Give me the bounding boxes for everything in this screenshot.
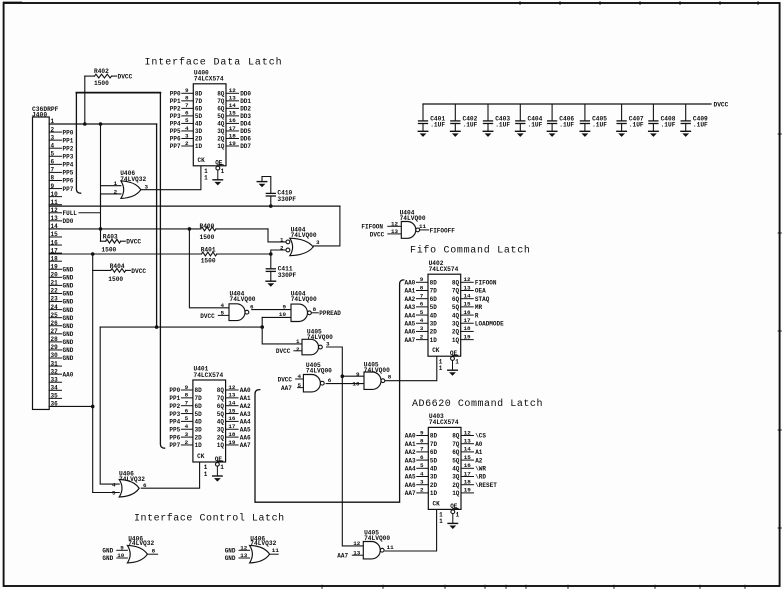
svg-text:2: 2 xyxy=(51,126,55,133)
wire pin36 to U406b pin5 xyxy=(49,405,92,407)
svg-text:1Q: 1Q xyxy=(452,490,460,497)
capacitor C410 330PF with ground hook xyxy=(262,177,271,194)
svg-text:3D: 3D xyxy=(195,128,203,135)
svg-text:8D: 8D xyxy=(430,433,438,440)
svg-text:3: 3 xyxy=(51,134,55,141)
svg-text:DD1: DD1 xyxy=(240,98,251,105)
svg-text:7Q: 7Q xyxy=(452,441,460,448)
wire R404 lead xyxy=(93,269,111,271)
svg-text:STAQ: STAQ xyxy=(475,296,490,303)
wire U405c out8 to U402 CK xyxy=(385,356,437,380)
svg-text:GND: GND xyxy=(225,555,236,562)
svg-text:3: 3 xyxy=(420,479,424,486)
svg-text:AA4: AA4 xyxy=(404,312,415,319)
wire AA bus U401 outputs to latches xyxy=(255,280,404,502)
svg-text:.1UF: .1UF xyxy=(661,122,676,129)
svg-text:\CS: \CS xyxy=(475,433,486,440)
svg-text:1: 1 xyxy=(220,464,224,471)
svg-text:GND: GND xyxy=(63,315,74,322)
svg-text:AA5: AA5 xyxy=(405,474,416,481)
svg-text:GND: GND xyxy=(63,299,74,306)
svg-text:4D: 4D xyxy=(430,466,438,473)
svg-text:AA7: AA7 xyxy=(337,552,348,559)
svg-text:6Q: 6Q xyxy=(217,403,225,410)
svg-text:R: R xyxy=(475,312,479,319)
svg-text:AA2: AA2 xyxy=(405,449,416,456)
svg-text:PP1: PP1 xyxy=(170,98,181,105)
svg-text:15: 15 xyxy=(229,110,237,117)
svg-text:PP3: PP3 xyxy=(170,113,181,120)
svg-text:5: 5 xyxy=(297,382,301,389)
svg-text:AA3: AA3 xyxy=(240,411,251,418)
svg-text:18: 18 xyxy=(51,255,59,262)
svg-text:4: 4 xyxy=(220,302,224,309)
wire C410 tap xyxy=(270,196,272,206)
svg-text:.1UF: .1UF xyxy=(629,122,644,129)
svg-text:3D: 3D xyxy=(430,320,438,327)
svg-text:7D: 7D xyxy=(430,288,438,295)
svg-text:19: 19 xyxy=(464,487,472,494)
wire U406a pin1 tap xyxy=(101,185,121,187)
svg-text:34: 34 xyxy=(51,385,59,392)
wire R402 pullup vertical xyxy=(84,76,86,124)
or-gate U406d 74LVQ32 pins 12 13 11 GND inputs xyxy=(225,535,280,563)
svg-text:13: 13 xyxy=(229,95,237,102)
ground under U403 OE pin xyxy=(448,523,458,529)
svg-text:PP5: PP5 xyxy=(170,128,181,135)
svg-text:3: 3 xyxy=(185,132,189,139)
wire U404c out to U404d pin9 xyxy=(252,309,291,311)
svg-text:5: 5 xyxy=(51,150,55,157)
svg-text:17: 17 xyxy=(464,470,472,477)
svg-text:9: 9 xyxy=(282,303,286,310)
svg-text:2: 2 xyxy=(185,140,189,147)
svg-text:9: 9 xyxy=(356,371,360,378)
svg-text:DVCC: DVCC xyxy=(714,102,729,109)
svg-text:5: 5 xyxy=(185,415,189,422)
svg-text:20: 20 xyxy=(51,272,59,279)
svg-text:1D: 1D xyxy=(430,490,438,497)
IC U403 74LCX574 xyxy=(405,413,497,525)
svg-text:6D: 6D xyxy=(195,403,203,410)
svg-text:AA4: AA4 xyxy=(240,419,251,426)
capacitor C409 .1UF xyxy=(681,104,708,131)
svg-text:5Q: 5Q xyxy=(217,411,225,418)
svg-text:1500: 1500 xyxy=(94,80,109,87)
svg-text:AA4: AA4 xyxy=(405,466,416,473)
svg-text:8: 8 xyxy=(185,392,189,399)
svg-text:19: 19 xyxy=(51,263,59,270)
svg-text:CK: CK xyxy=(432,347,440,354)
svg-text:5D: 5D xyxy=(430,304,438,311)
svg-text:1500: 1500 xyxy=(200,234,215,241)
svg-text:.1UF: .1UF xyxy=(693,122,708,129)
svg-text:8: 8 xyxy=(420,284,424,291)
nand U405a 74LVQ00 pins 1 2 3 xyxy=(276,329,333,356)
svg-text:5: 5 xyxy=(420,462,424,469)
svg-text:5D: 5D xyxy=(195,113,203,120)
svg-text:DD3: DD3 xyxy=(240,113,251,120)
svg-text:DD2: DD2 xyxy=(240,106,251,113)
svg-text:7D: 7D xyxy=(430,441,438,448)
wire U405d out11 to U403 CK xyxy=(385,510,436,552)
wire PP bus horizontal xyxy=(76,92,160,94)
svg-text:2: 2 xyxy=(185,439,189,446)
svg-text:8: 8 xyxy=(420,438,424,445)
svg-text:17: 17 xyxy=(51,247,59,254)
svg-text:14: 14 xyxy=(229,102,237,109)
wire pin1 vertical to n1 junction xyxy=(156,124,158,327)
svg-text:DD6: DD6 xyxy=(240,136,251,143)
svg-text:6: 6 xyxy=(185,407,189,414)
svg-text:GND: GND xyxy=(63,323,74,330)
svg-text:\RD: \RD xyxy=(475,474,486,481)
svg-text:330PF: 330PF xyxy=(278,272,297,279)
nand U404a 74LVQ00 negative-OR pins 1 2 3 xyxy=(280,226,320,255)
svg-text:1: 1 xyxy=(439,365,443,372)
svg-text:3: 3 xyxy=(145,183,149,190)
svg-text:AA3: AA3 xyxy=(404,304,415,311)
wire pin14 line through R400 to U404a pin1 xyxy=(49,228,201,230)
svg-text:6: 6 xyxy=(51,159,55,166)
wire n1 tap to U404c pin4 xyxy=(189,229,229,308)
svg-text:8D: 8D xyxy=(430,280,438,287)
svg-text:1500: 1500 xyxy=(108,276,123,283)
svg-text:AA6: AA6 xyxy=(405,482,416,489)
svg-text:2D: 2D xyxy=(195,136,203,143)
capacitor C401 .1UF xyxy=(419,104,446,131)
svg-text:8: 8 xyxy=(51,175,55,182)
svg-text:FULL: FULL xyxy=(63,210,78,217)
svg-text:8Q: 8Q xyxy=(217,387,225,394)
svg-text:2D: 2D xyxy=(430,482,438,489)
capacitor C407 .1UF xyxy=(617,104,644,131)
svg-text:AA0: AA0 xyxy=(405,433,416,440)
svg-text:4Q: 4Q xyxy=(217,419,225,426)
svg-text:12: 12 xyxy=(353,540,361,547)
svg-text:1Q: 1Q xyxy=(452,337,460,344)
svg-text:74LCX574: 74LCX574 xyxy=(194,76,224,83)
svg-text:6D: 6D xyxy=(430,296,438,303)
svg-text:DD4: DD4 xyxy=(240,121,251,128)
capacitor C403 .1UF xyxy=(484,104,511,131)
svg-text:PP5: PP5 xyxy=(169,426,180,433)
svg-text:4: 4 xyxy=(297,373,301,380)
svg-text:17: 17 xyxy=(228,423,236,430)
svg-text:PP2: PP2 xyxy=(63,145,74,152)
ground for C411 xyxy=(266,281,276,287)
svg-text:2Q: 2Q xyxy=(217,434,225,441)
svg-text:GND: GND xyxy=(225,548,236,555)
svg-text:11: 11 xyxy=(387,544,395,551)
svg-text:MR: MR xyxy=(475,304,483,311)
wire pin11 net long horizontal xyxy=(49,205,340,207)
svg-text:5: 5 xyxy=(220,310,224,317)
svg-text:7: 7 xyxy=(420,446,424,453)
svg-text:GND: GND xyxy=(63,347,74,354)
resistor R404 1500 xyxy=(108,263,146,283)
ground for C403 xyxy=(483,131,493,137)
svg-text:PP2: PP2 xyxy=(169,403,180,410)
svg-text:16: 16 xyxy=(463,309,471,316)
svg-text:AA5: AA5 xyxy=(240,426,251,433)
svg-text:PP3: PP3 xyxy=(63,153,74,160)
svg-text:3D: 3D xyxy=(430,474,438,481)
svg-text:CK: CK xyxy=(433,500,441,507)
svg-text:OE: OE xyxy=(215,456,223,463)
svg-text:6: 6 xyxy=(250,304,254,311)
resistor R401 1500 xyxy=(201,247,217,265)
svg-text:12: 12 xyxy=(463,276,471,283)
svg-text:11: 11 xyxy=(272,547,280,554)
svg-text:4: 4 xyxy=(185,125,189,132)
wire U401 CK net from U406b xyxy=(141,462,199,488)
svg-text:LOADMODE: LOADMODE xyxy=(475,320,504,327)
svg-text:AA7: AA7 xyxy=(404,337,415,344)
svg-text:AA7: AA7 xyxy=(281,385,292,392)
svg-text:3Q: 3Q xyxy=(452,474,460,481)
svg-text:16: 16 xyxy=(464,462,472,469)
svg-text:.1UF: .1UF xyxy=(528,122,543,129)
svg-text:8Q: 8Q xyxy=(217,91,225,98)
svg-text:13: 13 xyxy=(228,392,236,399)
svg-text:14: 14 xyxy=(464,446,472,453)
svg-text:16: 16 xyxy=(228,415,236,422)
svg-text:9: 9 xyxy=(420,276,424,283)
svg-text:PP0: PP0 xyxy=(170,91,181,98)
svg-text:AA3: AA3 xyxy=(405,457,416,464)
svg-text:.1UF: .1UF xyxy=(592,122,607,129)
ground for C409 xyxy=(681,131,691,137)
svg-text:OE: OE xyxy=(450,503,458,510)
svg-text:1: 1 xyxy=(221,168,225,175)
svg-text:AA0: AA0 xyxy=(404,280,415,287)
svg-text:OE: OE xyxy=(215,160,223,167)
connector J400 C36DRPF xyxy=(32,106,77,409)
svg-text:\WR: \WR xyxy=(475,466,486,473)
wire U406a pin2 drop from pin11 net xyxy=(101,194,121,206)
svg-text:CK: CK xyxy=(197,453,205,460)
svg-text:6D: 6D xyxy=(195,106,203,113)
svg-text:PPREAD: PPREAD xyxy=(319,310,341,317)
svg-text:8Q: 8Q xyxy=(452,433,460,440)
wire n1 horizontal y=327 xyxy=(100,326,262,328)
svg-text:9: 9 xyxy=(51,183,55,190)
svg-text:1: 1 xyxy=(296,338,300,345)
svg-text:4D: 4D xyxy=(195,419,203,426)
wire U405a out chain to U405c pin9 and U405d pin12 xyxy=(327,347,364,546)
wire PP bus left vertical with hook xyxy=(76,93,80,194)
svg-text:1D: 1D xyxy=(195,442,203,449)
svg-text:A1: A1 xyxy=(475,449,483,456)
svg-text:74LVQ00: 74LVQ00 xyxy=(306,368,332,375)
svg-text:2D: 2D xyxy=(195,434,203,441)
svg-text:74LCX574: 74LCX574 xyxy=(429,266,459,273)
nand U405b 74LVQ00 pins 4 5 6 xyxy=(278,362,333,392)
svg-text:3Q: 3Q xyxy=(217,426,225,433)
svg-text:74LVQ00: 74LVQ00 xyxy=(230,296,256,303)
svg-text:4D: 4D xyxy=(430,312,438,319)
or-gate U406c 74LVQ32 pins 9 10 8 GND inputs xyxy=(102,535,157,563)
svg-text:8Q: 8Q xyxy=(452,280,460,287)
svg-text:2: 2 xyxy=(420,333,424,340)
svg-text:6: 6 xyxy=(420,454,424,461)
svg-text:A2: A2 xyxy=(475,457,483,464)
svg-text:26: 26 xyxy=(51,320,59,327)
svg-text:2: 2 xyxy=(420,487,424,494)
svg-text:11: 11 xyxy=(51,199,59,206)
svg-text:GND: GND xyxy=(63,339,74,346)
svg-text:DVCC: DVCC xyxy=(276,348,291,355)
svg-text:13: 13 xyxy=(464,438,472,445)
svg-text:5Q: 5Q xyxy=(217,113,225,120)
ground under U401 OE pin xyxy=(213,476,223,482)
svg-text:PP0: PP0 xyxy=(169,387,180,394)
svg-text:3: 3 xyxy=(316,239,320,246)
capacitor C402 .1UF xyxy=(451,104,478,131)
svg-text:AD6620 Command Latch: AD6620 Command Latch xyxy=(412,398,543,410)
svg-text:PP2: PP2 xyxy=(170,106,181,113)
svg-text:330PF: 330PF xyxy=(277,196,296,203)
svg-text:19: 19 xyxy=(229,140,237,147)
svg-text:R403: R403 xyxy=(103,234,118,241)
svg-text:9: 9 xyxy=(185,87,189,94)
svg-text:AA1: AA1 xyxy=(404,288,415,295)
svg-text:7: 7 xyxy=(185,400,189,407)
svg-text:DVCC: DVCC xyxy=(131,268,146,275)
svg-text:4D: 4D xyxy=(195,121,203,128)
svg-text:1: 1 xyxy=(204,175,208,182)
svg-text:10: 10 xyxy=(51,191,59,198)
svg-text:AA1: AA1 xyxy=(240,395,251,402)
svg-text:DD7: DD7 xyxy=(240,143,251,150)
svg-text:6: 6 xyxy=(143,482,147,489)
svg-text:FIFOON: FIFOON xyxy=(475,280,497,287)
svg-text:DD5: DD5 xyxy=(240,128,251,135)
svg-text:5D: 5D xyxy=(195,411,203,418)
wire U400 CK net xyxy=(141,166,201,190)
svg-text:AA6: AA6 xyxy=(404,329,415,336)
svg-text:12: 12 xyxy=(228,384,236,391)
svg-text:DD0: DD0 xyxy=(63,218,74,225)
svg-text:23: 23 xyxy=(51,296,59,303)
nand U404b 74LVQ00 FIFOOFF pins 12 13 11 xyxy=(361,210,455,239)
svg-text:2Q: 2Q xyxy=(452,329,460,336)
svg-text:35: 35 xyxy=(51,393,59,400)
ground for C410 xyxy=(257,182,267,188)
svg-text:PP0: PP0 xyxy=(63,129,74,136)
svg-text:4Q: 4Q xyxy=(452,312,460,319)
svg-text:15: 15 xyxy=(228,407,236,414)
svg-text:13: 13 xyxy=(240,552,248,559)
svg-text:PP6: PP6 xyxy=(63,178,74,185)
svg-text:6: 6 xyxy=(420,301,424,308)
svg-text:7: 7 xyxy=(185,102,189,109)
svg-text:8: 8 xyxy=(313,306,317,313)
svg-text:GND: GND xyxy=(63,291,74,298)
svg-text:GND: GND xyxy=(63,331,74,338)
svg-text:AA7: AA7 xyxy=(240,442,251,449)
svg-text:10: 10 xyxy=(352,380,360,387)
svg-text:12: 12 xyxy=(51,207,59,214)
svg-text:17: 17 xyxy=(229,125,237,132)
svg-text:2Q: 2Q xyxy=(217,136,225,143)
svg-text:12: 12 xyxy=(229,87,237,94)
wire pin1 strobe line xyxy=(49,123,156,125)
svg-text:19: 19 xyxy=(228,439,236,446)
svg-text:27: 27 xyxy=(51,328,59,335)
svg-text:9: 9 xyxy=(420,429,424,436)
svg-text:1: 1 xyxy=(456,512,460,519)
wire node n1 vertical x=100.5 xyxy=(100,124,102,241)
svg-text:18: 18 xyxy=(464,479,472,486)
svg-text:8: 8 xyxy=(388,373,392,380)
svg-text:25: 25 xyxy=(51,312,59,319)
wire pin17 line through R401 to U404a pin2 xyxy=(49,253,201,255)
svg-text:13: 13 xyxy=(353,549,361,556)
svg-text:2: 2 xyxy=(280,245,284,252)
svg-text:GND: GND xyxy=(63,355,74,362)
svg-text:GND: GND xyxy=(63,307,74,314)
capacitor C406 .1UF xyxy=(548,104,575,131)
svg-text:4: 4 xyxy=(112,481,116,488)
svg-text:4Q: 4Q xyxy=(217,121,225,128)
wire PP bus right vertical with hook at U401 xyxy=(160,93,164,449)
svg-text:8: 8 xyxy=(185,95,189,102)
capacitor C404 .1UF xyxy=(516,104,543,131)
svg-text:13: 13 xyxy=(391,228,399,235)
ground under U402 OE pin xyxy=(448,370,458,376)
svg-text:30: 30 xyxy=(51,352,59,359)
svg-text:1Q: 1Q xyxy=(217,143,225,150)
ground for C405 xyxy=(580,131,590,137)
ground for C408 xyxy=(649,131,659,137)
svg-text:2: 2 xyxy=(296,346,300,353)
svg-text:5: 5 xyxy=(185,117,189,124)
svg-text:PP1: PP1 xyxy=(63,137,74,144)
svg-text:DVCC: DVCC xyxy=(118,74,133,81)
svg-text:Interface Control Latch: Interface Control Latch xyxy=(134,513,285,525)
svg-text:PP7: PP7 xyxy=(169,442,180,449)
svg-text:15: 15 xyxy=(463,301,471,308)
svg-text:19: 19 xyxy=(463,333,471,340)
svg-text:33: 33 xyxy=(51,376,59,383)
svg-text:DVCC: DVCC xyxy=(126,239,141,246)
svg-text:A0: A0 xyxy=(475,441,483,448)
svg-text:2D: 2D xyxy=(430,329,438,336)
svg-text:5D: 5D xyxy=(430,457,438,464)
svg-text:6: 6 xyxy=(328,377,332,384)
svg-text:16: 16 xyxy=(229,117,237,124)
svg-text:12: 12 xyxy=(240,544,248,551)
nand U404d 74LVQ00 PPREAD pins 9 10 8 xyxy=(279,290,341,321)
svg-text:74LVQ00: 74LVQ00 xyxy=(291,232,317,239)
or-gate U406b 74LVQ32 pins 4 5 6 xyxy=(112,470,147,497)
svg-text:PP4: PP4 xyxy=(169,419,180,426)
svg-text:Interface Data Latch: Interface Data Latch xyxy=(145,57,283,69)
svg-text:1: 1 xyxy=(280,237,284,244)
ground under U400 OE pin xyxy=(213,180,223,186)
capacitor C405 .1UF xyxy=(580,104,607,131)
svg-text:14: 14 xyxy=(228,400,236,407)
svg-text:DVCC: DVCC xyxy=(200,313,215,320)
svg-text:3Q: 3Q xyxy=(452,320,460,327)
svg-text:AA0: AA0 xyxy=(63,371,74,378)
IC U401 74LCX574 xyxy=(169,366,251,478)
svg-text:PP5: PP5 xyxy=(63,170,74,177)
svg-text:1: 1 xyxy=(114,180,118,187)
svg-text:3: 3 xyxy=(326,340,330,347)
